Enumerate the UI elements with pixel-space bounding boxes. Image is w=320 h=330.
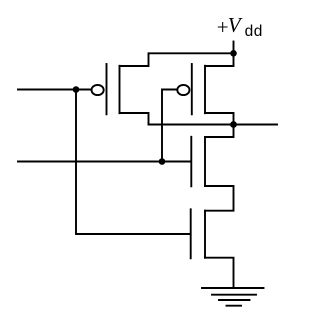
- +Vdd label: [217, 13, 263, 40]
- svg-text:V: V: [228, 13, 243, 37]
- wire: Q1 drain lead to output rail: [120, 113, 149, 125]
- wire: B up to Q2 gate bubble: [162, 90, 176, 162]
- wire: Q2 drain lead: [205, 113, 234, 125]
- wire: A down and to Q4 gate: [76, 90, 190, 235]
- wire: Vdd rail with Q1 source lead: [120, 53, 234, 66]
- wire: Q3 source to Q4 drain: [205, 186, 234, 211]
- wire: Q2 source lead: [205, 53, 234, 66]
- wire: A to Q1 gate bubble: [76, 89, 91, 91]
- transistor Q2 (right PMOS): [177, 64, 205, 114]
- node A junction dot: [73, 86, 80, 93]
- node: output junction dot: [230, 121, 237, 128]
- node: Vdd junction dot: [230, 50, 237, 57]
- transistor Q1 (left PMOS): [92, 64, 120, 114]
- input B wire: [18, 161, 191, 163]
- wire: Q4 source lead down to ground: [205, 258, 234, 288]
- input A wire: [18, 89, 76, 91]
- wire: Q3 drain lead up to output node: [205, 125, 234, 138]
- node B junction dot: [159, 158, 166, 165]
- transistor Q3 (upper NMOS): [191, 137, 205, 187]
- svg-text:dd: dd: [245, 23, 263, 40]
- transistor Q4 (lower NMOS): [191, 209, 205, 258]
- wire: output line: [149, 124, 278, 126]
- wire: Vdd stub: [233, 42, 235, 54]
- ground: [202, 288, 264, 306]
